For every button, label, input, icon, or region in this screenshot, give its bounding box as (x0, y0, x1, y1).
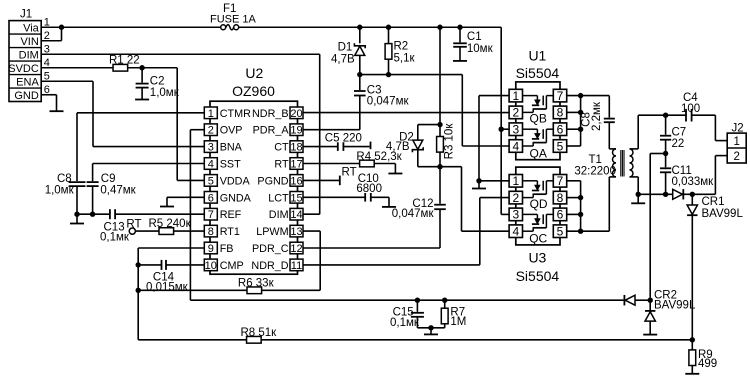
pin 13 U2 LPWM (290, 225, 303, 237)
capacitor C8 2,2mk (608, 96, 610, 118)
svg-text:J1: J1 (20, 9, 32, 21)
wire NDR_D U2 pin11 to U3 pin2 (303, 264, 480, 266)
pin 4 U1 (509, 140, 522, 153)
ground U1/U3 sources (478, 181, 480, 189)
svg-text:QC: QC (529, 231, 547, 245)
svg-text:J2: J2 (732, 122, 744, 134)
transistor pack U3 Si5504 body (516, 167, 560, 245)
resistor R9 499 (691, 340, 693, 350)
node Via/VIN tie (59, 25, 64, 30)
svg-text:5,1к: 5,1к (394, 52, 416, 64)
svg-text:R2: R2 (394, 40, 409, 52)
svg-text:499: 499 (698, 358, 717, 370)
pin 6 U1 (553, 123, 566, 136)
node SVDC/C2 (139, 65, 144, 70)
svg-text:RT: RT (274, 159, 289, 171)
svg-text:2: 2 (512, 191, 519, 205)
svg-text:0,047мк: 0,047мк (367, 96, 410, 108)
svg-text:15: 15 (290, 192, 302, 204)
pin 3 U1 (509, 123, 522, 136)
wire J1.2 VIN riser (41, 40, 61, 42)
capacitor C15 0,1mk (416, 300, 418, 312)
svg-text:12: 12 (290, 243, 302, 255)
wire U2 pin2 OVP to feedback line (190, 129, 204, 131)
wire J1.1 Via to fuse F1 (41, 26, 220, 28)
capacitor C2 1,0mk (141, 68, 143, 83)
pin 9 U2 FB (204, 242, 217, 254)
pin 19 U2 PDR_A (290, 124, 303, 136)
ground J1.6 GND (41, 94, 56, 96)
svg-text:R5 240к: R5 240к (149, 218, 192, 230)
node U3 pin5 bus (578, 229, 583, 234)
capacitor C3 0,047mk (359, 75, 361, 90)
terminal RT circle (129, 228, 135, 234)
svg-text:3: 3 (208, 142, 214, 154)
pin 6 U3 (553, 208, 566, 221)
svg-text:14: 14 (290, 209, 302, 221)
wire QC gate line y166 (440, 166, 462, 168)
svg-text:BNA: BNA (220, 142, 243, 154)
svg-text:C5 220: C5 220 (325, 132, 362, 144)
svg-text:22: 22 (672, 138, 685, 150)
svg-text:Via: Via (23, 23, 40, 35)
wire ENA J1.5 to U2 pin3 BNA (41, 80, 93, 82)
svg-text:ENA: ENA (16, 77, 39, 89)
svg-text:RT1: RT1 (220, 226, 240, 238)
wire gate-supply line y74 (360, 74, 463, 76)
svg-text:6: 6 (557, 208, 564, 222)
pin 2 U1 (509, 106, 522, 119)
svg-text:U3: U3 (528, 250, 546, 266)
wire FB bottom rail to R8 (138, 339, 246, 341)
node secondary bottom (636, 192, 641, 197)
wire PDR_A U2 pin19 to C3 (303, 129, 360, 131)
node C11 bottom (663, 192, 668, 197)
svg-text:1: 1 (733, 136, 739, 148)
node U3 pin6 bus (578, 212, 583, 217)
wire DIM J1.3 to U2 pin14 (41, 53, 320, 55)
svg-text:1,0мк: 1,0мк (150, 87, 180, 99)
svg-text:2,2мк: 2,2мк (591, 101, 603, 131)
node sense rail / R9 (690, 337, 695, 342)
wire U2 pin8 RT1 to R5 (135, 230, 204, 232)
svg-text:FUSE 1A: FUSE 1A (210, 13, 257, 25)
svg-text:BAV99L: BAV99L (654, 300, 696, 312)
node rail/D1 (357, 25, 362, 30)
svg-text:32:2200: 32:2200 (574, 165, 616, 177)
wire to J2 pin1 (714, 115, 716, 140)
svg-text:7: 7 (208, 209, 214, 221)
svg-text:0,015мк: 0,015мк (146, 281, 189, 293)
pin 4 U2 SST (204, 158, 217, 170)
connector J1 (9, 21, 41, 102)
svg-text:R1 22: R1 22 (109, 55, 140, 67)
svg-text:DIM: DIM (19, 50, 39, 62)
svg-text:R3 10к: R3 10к (444, 123, 456, 160)
svg-text:16: 16 (290, 175, 302, 187)
svg-text:5: 5 (208, 175, 214, 187)
wire lamp return line (638, 193, 673, 195)
svg-text:1M: 1M (450, 316, 466, 328)
pin 14 U2 DIM (290, 208, 303, 220)
pin 8 U1 (553, 106, 566, 119)
svg-text:0,047мк: 0,047мк (392, 208, 435, 220)
transistor QD (522, 180, 537, 182)
transistor QC (522, 213, 537, 215)
ground secondary (637, 194, 639, 203)
svg-text:4: 4 (512, 225, 519, 239)
svg-text:6800: 6800 (356, 183, 382, 195)
svg-text:DIM: DIM (269, 209, 289, 221)
pin 15 U2 LCT (290, 192, 303, 204)
svg-text:7: 7 (557, 89, 564, 103)
svg-text:QD: QD (530, 197, 548, 211)
ground R4 end (394, 164, 396, 174)
svg-text:1: 1 (208, 108, 214, 120)
wire NDR_B U2 pin20 to U1 pin2 (303, 112, 509, 114)
node U1 pin6 bus (578, 127, 583, 132)
wire secondary top lead (637, 115, 639, 149)
svg-text:R8 51к: R8 51к (241, 327, 278, 339)
svg-text:C8: C8 (57, 173, 72, 185)
svg-text:RT: RT (126, 218, 141, 230)
svg-text:FB: FB (220, 243, 234, 255)
pin 6 U2 GNDA (204, 192, 217, 204)
svg-text:4,7B: 4,7B (331, 54, 355, 66)
node source-ground (476, 178, 481, 183)
wire PDR_C U2 pin12 to C12 (303, 247, 440, 249)
ground C5 end bar (370, 142, 372, 150)
svg-text:CMP: CMP (220, 260, 244, 272)
node rail to U1 pin3 (499, 127, 504, 132)
svg-text:C2: C2 (150, 76, 165, 88)
wire U2 pin4 SST to C9 (93, 163, 205, 165)
svg-text:4: 4 (512, 139, 519, 153)
svg-text:18: 18 (290, 142, 302, 154)
svg-text:R6 33к: R6 33к (238, 277, 275, 289)
svg-text:13: 13 (290, 226, 302, 238)
svg-text:7: 7 (557, 174, 564, 188)
wire U2 pin9 FB down-left (138, 247, 204, 249)
svg-text:PDR_A: PDR_A (253, 125, 290, 137)
pin 5 U1 (553, 140, 566, 153)
svg-text:NDR_B: NDR_B (252, 108, 289, 120)
svg-text:RT: RT (342, 166, 357, 178)
svg-text:OZ960: OZ960 (232, 83, 275, 99)
svg-text:4: 4 (208, 159, 214, 171)
svg-text:19: 19 (290, 125, 302, 137)
pin 5 U2 VDDA (204, 175, 217, 187)
svg-text:PGND: PGND (257, 175, 288, 187)
node OVP/C15 (415, 298, 420, 303)
svg-text:U2: U2 (245, 65, 263, 81)
svg-text:10: 10 (205, 260, 217, 272)
node D1/C3 line (357, 72, 362, 77)
capacitor C13 0,1mk (109, 209, 111, 219)
svg-text:GND: GND (14, 90, 39, 102)
svg-text:6: 6 (557, 123, 564, 137)
pin 2 U2 OVP (204, 124, 217, 136)
wire U2 pin1 CTMR to C8 (77, 112, 204, 114)
transistor QA (522, 128, 537, 130)
svg-text:9: 9 (208, 243, 214, 255)
pin 11 U2 NDR_D (290, 259, 303, 271)
pin 7 U1 (553, 89, 566, 102)
svg-text:6: 6 (208, 192, 214, 204)
svg-text:1: 1 (512, 89, 519, 103)
pin 2 U3 (509, 191, 522, 204)
svg-text:BAV99L: BAV99L (702, 208, 744, 220)
svg-text:REF: REF (220, 209, 242, 221)
node FB/C14 (136, 262, 141, 267)
ground C15/R7 (430, 328, 432, 335)
transistor QB (522, 95, 537, 97)
wire U1 pin1 / U3 pin1 source line (479, 95, 509, 97)
svg-text:2: 2 (208, 125, 214, 137)
svg-text:2: 2 (512, 106, 519, 120)
resistor R4 52,3k on RT (303, 163, 360, 165)
ground C8 bottom (76, 214, 78, 223)
svg-text:8: 8 (557, 106, 564, 120)
node R2 bottom (386, 72, 391, 77)
node CR2 (648, 298, 653, 303)
wire secondary bottom lead (637, 177, 639, 194)
node R3 top / D2 (437, 122, 442, 127)
svg-text:C9: C9 (101, 173, 116, 185)
resistor R3 10k (439, 27, 441, 137)
wire VIN rail fuse to right corner (239, 26, 502, 28)
svg-text:20: 20 (290, 108, 302, 120)
svg-text:CR1: CR1 (702, 196, 725, 208)
connector J2 (727, 133, 746, 163)
svg-text:5: 5 (557, 139, 564, 153)
zener D1 4,7B (354, 43, 365, 48)
capacitor C4 100 (685, 109, 687, 122)
pin 20 U2 NDR_B (290, 107, 303, 119)
zener D2 4,7B (418, 124, 440, 126)
pin 17 U2 RT (290, 158, 303, 170)
wire to J2 pin2 (714, 156, 716, 195)
svg-text:C7: C7 (672, 127, 687, 139)
svg-text:SST: SST (220, 159, 241, 171)
wire VIN rail drop to U1 pin3 and U3 pin3 (500, 27, 502, 214)
svg-text:8: 8 (557, 191, 564, 205)
pin 1 U2 CTMR (204, 107, 217, 119)
node C15/R7 ground (428, 325, 433, 330)
svg-text:OVP: OVP (220, 125, 243, 137)
diode CR2 lower half to ground (649, 300, 651, 311)
pin 12 U2 PDR_C (290, 242, 303, 254)
svg-text:17: 17 (290, 159, 302, 171)
resistor R1 22 (114, 67, 178, 69)
ground R9 bottom (691, 365, 693, 374)
svg-text:GNDA: GNDA (220, 192, 252, 204)
pin 5 U3 (553, 225, 566, 238)
node FB/R6 (136, 288, 141, 293)
svg-text:SVDC: SVDC (8, 63, 39, 75)
resistor R7 1M (444, 300, 446, 328)
svg-text:1,0мк: 1,0мк (45, 184, 75, 196)
node R3 bottom / D2 / C12 (437, 164, 442, 169)
svg-text:T1: T1 (589, 154, 602, 166)
svg-text:PDR_C: PDR_C (252, 243, 289, 255)
wire CR2 node to C7/C11 tap (649, 154, 651, 301)
capacitor C8 1,0mk (69, 181, 86, 183)
capacitor C9 0,47mk (87, 181, 99, 183)
svg-text:QA: QA (530, 146, 547, 160)
diode CR2 left half BAV99L (623, 295, 625, 305)
pin 3 U2 BNA (204, 141, 217, 153)
svg-text:QB: QB (530, 112, 547, 126)
svg-text:100: 100 (681, 103, 700, 115)
capacitor C5 220 on CT (303, 146, 338, 148)
svg-text:Si5504: Si5504 (516, 65, 560, 81)
svg-text:8: 8 (208, 226, 214, 238)
fuse F1 FUSE 1A (221, 25, 226, 30)
pin 4 U3 (509, 225, 522, 238)
wire tap to CR2 (650, 153, 665, 155)
node rail/R3 (437, 25, 442, 30)
capacitor C11 0,033mk (665, 154, 667, 168)
wire U3 drains bus (567, 180, 581, 182)
svg-text:R4 52,3к: R4 52,3к (356, 151, 402, 163)
node C8/REF (74, 212, 79, 217)
transistor pack U1 Si5504 body (516, 82, 560, 160)
node U3 pin8 bus (578, 195, 583, 200)
svg-text:C3: C3 (367, 84, 382, 96)
node U1 pin8 bus (578, 110, 583, 115)
resistor R8 51k (247, 339, 693, 341)
wire U2 pin10 CMP to C14 (166, 264, 204, 266)
node U1 pin7 bus (578, 93, 583, 98)
node C9/REF (90, 212, 95, 217)
wire SVDC J1.4 to R1 (41, 67, 113, 69)
svg-text:0,47мк: 0,47мк (100, 184, 136, 196)
node OVP/R7 (442, 298, 447, 303)
node C7/C11 tap (663, 151, 668, 156)
svg-text:D1: D1 (338, 42, 353, 54)
svg-text:0,1мк: 0,1мк (100, 232, 130, 244)
pin 10 U2 CMP (204, 259, 217, 271)
pin 7 U3 (553, 175, 566, 188)
svg-text:C1: C1 (467, 31, 482, 43)
node C4/C7 (663, 113, 668, 118)
svg-text:LPWM: LPWM (256, 226, 288, 238)
ground U2 pin6 GNDA (167, 196, 204, 198)
node CR1 (690, 192, 695, 197)
pin 8 U3 (553, 191, 566, 204)
ground C10 end (388, 197, 390, 207)
capacitor C1 10mk (459, 27, 461, 42)
wire C15/R7 bottoms (417, 327, 444, 329)
op-amp U2 OZ960 body (210, 101, 298, 274)
node rail/C1 (457, 25, 462, 30)
svg-text:VDDA: VDDA (220, 175, 251, 187)
svg-text:LCT: LCT (268, 192, 289, 204)
wire SVDC to U2 pin5 VDDA (176, 68, 178, 181)
svg-text:3: 3 (512, 208, 519, 222)
pin 1 U1 (509, 89, 522, 102)
resistor R5 240k (159, 228, 174, 235)
svg-text:5: 5 (557, 225, 564, 239)
svg-text:U1: U1 (528, 48, 546, 64)
diode CR1 right half BAV99L (673, 189, 683, 199)
wire LPWM U2 pin13 to R6 (303, 230, 320, 232)
pin 16 U2 PGND (290, 175, 303, 187)
pin 7 U2 REF (204, 208, 217, 220)
wire U2 pin7 REF to C13 (115, 213, 204, 215)
capacitor C10 6800 on LCT (303, 196, 365, 198)
capacitor C12 0,047mk (439, 167, 441, 204)
svg-text:0,1мк: 0,1мк (390, 317, 420, 329)
svg-text:10мк: 10мк (467, 43, 494, 55)
ground PGND U2 pin16 bar (303, 179, 340, 181)
pin 3 U3 (509, 208, 522, 221)
svg-text:3: 3 (512, 123, 519, 137)
transformer T1 core (620, 150, 622, 177)
pin 8 U2 RT1 (204, 225, 217, 237)
capacitor C14 0,015mk (161, 260, 163, 270)
transformer T1 32:2200 primary (609, 148, 616, 150)
svg-text:CT: CT (274, 142, 289, 154)
resistor R2 5,1k (388, 27, 390, 74)
wire U1 drains bus (567, 95, 610, 97)
capacitor C7 22 (665, 115, 667, 135)
svg-text:Si5504: Si5504 (516, 268, 560, 284)
transformer T1 secondary (630, 148, 639, 150)
svg-text:CTMR: CTMR (220, 108, 251, 120)
diode CR1 lower half (691, 194, 693, 205)
node rail/R2 (386, 25, 391, 30)
svg-text:11: 11 (291, 260, 302, 272)
svg-text:2: 2 (733, 151, 739, 163)
resistor R6 33k (247, 287, 262, 294)
svg-text:0,033мк: 0,033мк (672, 176, 715, 188)
svg-text:VIN: VIN (20, 36, 38, 48)
pin 18 U2 CT (290, 141, 303, 153)
svg-text:NDR_D: NDR_D (251, 260, 288, 272)
svg-text:1: 1 (512, 174, 519, 188)
pin 1 U3 (509, 175, 522, 188)
